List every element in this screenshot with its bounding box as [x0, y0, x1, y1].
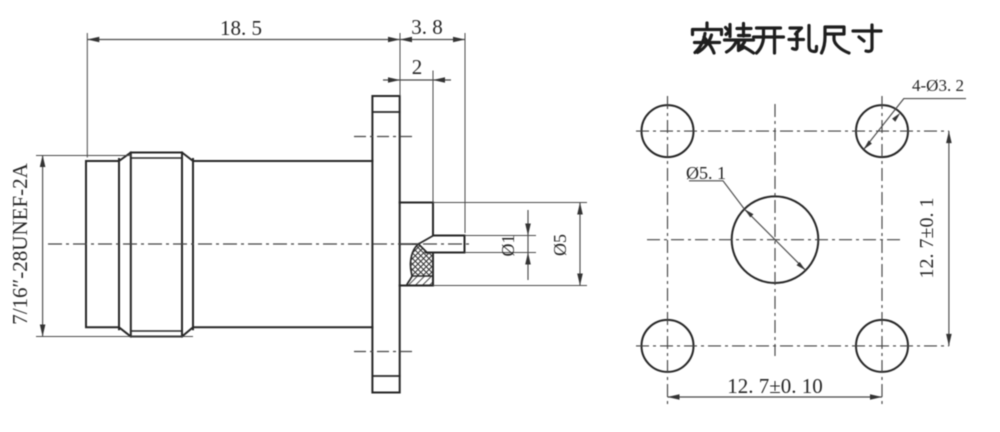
corner hole top-left [642, 105, 694, 157]
center pin [426, 236, 465, 253]
centerline column right [881, 96, 883, 406]
dim 3.8 line [400, 39, 465, 41]
flange hole centerline top [354, 136, 414, 138]
center hole [732, 196, 819, 283]
svg-text:Ø1: Ø1 [498, 235, 518, 257]
dim Ø5 line [579, 203, 581, 286]
char 尺 [822, 27, 850, 53]
centerlines right view [636, 96, 949, 406]
char 寸 [853, 25, 881, 51]
centerlines left view [48, 137, 473, 352]
dim 12.7 vertical line right [948, 131, 950, 346]
corner hole bottom-right [856, 320, 908, 372]
dim Ø1 ext lines [465, 236, 537, 253]
centerline row bottom [636, 345, 949, 347]
svg-text:12. 7±0. 10: 12. 7±0. 10 [727, 374, 823, 398]
svg-text:7/16″-28UNEF-2A: 7/16″-28UNEF-2A [8, 162, 32, 324]
flange hole centerline bottom [354, 351, 414, 353]
svg-text:Ø5: Ø5 [550, 234, 570, 256]
svg-text:3. 8: 3. 8 [411, 15, 443, 39]
dim 7/16 thread vertical line [42, 155, 44, 337]
bead bore contour on axis [401, 243, 419, 245]
title 安装开孔尺寸 drawn as strokes [693, 23, 882, 53]
char 开 [754, 28, 784, 53]
corner hole bottom-left [642, 320, 694, 372]
char 孔 [789, 26, 817, 52]
dim 2 line with outside arrows [383, 79, 451, 81]
insulator bottom dense hatch band [407, 276, 434, 286]
centerline row top [636, 130, 949, 132]
cylinder body [193, 161, 372, 327]
dim Ø1 line with outside arrows [527, 210, 529, 280]
pin cone tip [419, 236, 434, 253]
centerline center vertical [774, 104, 776, 356]
char 装 [725, 24, 754, 54]
svg-text:18. 5: 18. 5 [220, 16, 262, 40]
hatch band top line [412, 275, 433, 277]
dim 18.5 arrows [87, 37, 99, 43]
corner hole top-right [856, 105, 908, 157]
dim 18.5 line [87, 39, 400, 41]
svg-text:4-Ø3. 2: 4-Ø3. 2 [912, 76, 964, 95]
svg-text:Ø5. 1: Ø5. 1 [686, 163, 726, 183]
boss cylinder [400, 203, 433, 286]
svg-text:2: 2 [412, 55, 423, 79]
dim 12.7 horizontal line bottom [668, 396, 883, 398]
dim 3.8 ext line [464, 33, 466, 233]
insulator bead outline [407, 244, 419, 286]
dim 3.8 arrows [400, 37, 412, 43]
svg-text:12. 7±0. 1: 12. 7±0. 1 [916, 198, 938, 279]
hex chamfer corners [119, 153, 193, 337]
threaded barrel left section [86, 161, 119, 327]
dim Ø5 ext lines [433, 203, 587, 286]
dim 18.5 ext lines [87, 33, 400, 158]
hex chamfer tangent lines [131, 158, 182, 331]
main axis centerline [48, 243, 473, 245]
flange corner lines [372, 112, 399, 376]
char 安 [693, 23, 722, 53]
hex nut body [119, 153, 193, 337]
insulator cross hatch fill [411, 245, 433, 276]
leader Ø5.1: underline and diagonal through center hole [689, 181, 806, 270]
centerline center horizontal [647, 239, 903, 241]
flange plate [372, 96, 399, 393]
leader 4-Ø3.2: underline and diagonal through top-right hole [864, 99, 966, 150]
centerline column left [667, 96, 669, 406]
